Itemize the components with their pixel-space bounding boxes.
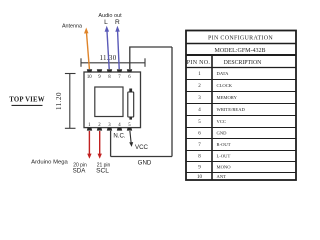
svg-text:DATA: DATA xyxy=(217,71,230,76)
table row 3 MEMORY xyxy=(198,95,237,101)
svg-text:4: 4 xyxy=(198,108,201,113)
audio out R arrow (pin 7) xyxy=(115,26,120,69)
SCL arrow (pin 2) xyxy=(98,131,102,159)
svg-text:8: 8 xyxy=(198,154,201,159)
svg-text:N.C.: N.C. xyxy=(113,133,125,140)
svg-text:MONO: MONO xyxy=(217,164,232,169)
table row 4 WRITE/READ xyxy=(198,107,245,113)
pin configuration table: outer border xyxy=(186,31,296,181)
wire: pin 3 down to GND rail xyxy=(110,131,112,157)
svg-text:9: 9 xyxy=(198,165,201,170)
svg-text:R-OUT: R-OUT xyxy=(217,142,231,147)
VCC arrow (pin 5) xyxy=(129,131,133,147)
pin 4 (bottom, WRITE/READ) xyxy=(117,123,122,131)
table line under title xyxy=(186,43,296,45)
svg-text:VCC: VCC xyxy=(217,119,226,124)
table row lines xyxy=(186,80,296,173)
SDA arrow (pin 1) xyxy=(87,131,91,159)
svg-text:7: 7 xyxy=(198,143,201,148)
table row 10 ANT xyxy=(197,174,226,180)
antenna arrow (pin 10) xyxy=(84,28,89,70)
svg-text:VCC: VCC xyxy=(135,144,149,151)
svg-text:WRITE/READ: WRITE/READ xyxy=(217,107,246,112)
svg-text:DESCRIPTION: DESCRIPTION xyxy=(224,60,262,66)
svg-text:GND: GND xyxy=(217,131,228,136)
pin 6 (top, GND) xyxy=(127,69,132,80)
table row 2 CLOCK xyxy=(198,83,233,89)
chip inner die outline xyxy=(95,87,123,117)
label TOP VIEW xyxy=(9,97,45,106)
chip U1 body (top view) xyxy=(84,72,141,128)
svg-text:L-OUT: L-OUT xyxy=(217,153,231,158)
table row 1 DATA xyxy=(198,71,229,77)
svg-text:3: 3 xyxy=(198,96,201,101)
table row 8 L-OUT xyxy=(198,153,230,159)
table line under header xyxy=(186,67,296,69)
svg-text:Audio out: Audio out xyxy=(98,13,122,19)
svg-text:1: 1 xyxy=(198,72,201,77)
dimension 11.30 (chip width) xyxy=(81,54,145,67)
svg-text:CLOCK: CLOCK xyxy=(217,83,233,88)
pin 9 (top, MONO) xyxy=(97,69,102,80)
audio out L arrow (pin 8) xyxy=(105,26,110,69)
wire: GND bottom rail xyxy=(111,156,172,158)
svg-text:PIN CONFIGURATION: PIN CONFIGURATION xyxy=(208,36,273,42)
svg-text:6: 6 xyxy=(128,75,131,80)
table row 7 R-OUT xyxy=(198,142,230,148)
svg-text:9: 9 xyxy=(98,75,101,80)
pin 5 (bottom, VCC) xyxy=(127,123,132,131)
svg-text:SDA: SDA xyxy=(73,168,87,175)
table row 6 GND xyxy=(198,131,227,137)
svg-text:5: 5 xyxy=(198,120,201,125)
svg-text:MODEL:GFM-432B: MODEL:GFM-432B xyxy=(214,48,265,54)
svg-text:TOP VIEW: TOP VIEW xyxy=(9,97,45,104)
svg-text:MEMORY: MEMORY xyxy=(217,95,238,100)
pin 7 (top, R-OUT) xyxy=(117,69,122,80)
svg-text:7: 7 xyxy=(118,75,121,80)
svg-text:10: 10 xyxy=(197,175,203,180)
dimension 11.20 (chip height) xyxy=(55,74,76,129)
crystal Y1 xyxy=(128,89,134,120)
svg-text:L: L xyxy=(104,19,108,26)
table column divider xyxy=(211,55,213,180)
pin 10 (top, ANT) xyxy=(87,69,93,80)
pin 8 (top, L-OUT) xyxy=(107,69,112,80)
wire: pin 6 up and over to right rail xyxy=(130,47,172,69)
table line under model xyxy=(186,54,296,56)
svg-text:R: R xyxy=(115,19,120,26)
svg-text:GND: GND xyxy=(138,159,152,166)
svg-text:Antenna: Antenna xyxy=(62,23,82,29)
svg-text:2: 2 xyxy=(198,84,201,89)
pin 3 (bottom, MEMORY) xyxy=(107,123,112,131)
svg-text:Arduino Mega: Arduino Mega xyxy=(31,159,68,165)
pin 1 (bottom, DATA) xyxy=(87,123,92,131)
svg-text:11.20: 11.20 xyxy=(55,92,63,110)
pin 2 (bottom, CLOCK) xyxy=(97,123,102,131)
svg-text:8: 8 xyxy=(108,75,111,80)
wire: right rail down xyxy=(171,47,173,157)
svg-text:6: 6 xyxy=(198,132,201,137)
svg-text:SCL: SCL xyxy=(96,168,109,175)
table row 5 VCC xyxy=(198,119,226,125)
svg-text:10: 10 xyxy=(87,75,92,80)
svg-text:ANT: ANT xyxy=(217,174,227,179)
svg-text:PIN NO.: PIN NO. xyxy=(187,60,211,66)
table row 9 MONO xyxy=(198,164,231,170)
